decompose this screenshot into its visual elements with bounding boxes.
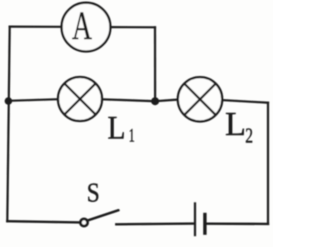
battery long plate [194, 202, 196, 236]
switch S [80, 210, 118, 226]
wire middle left segment [8, 99, 58, 101]
ammeter A [62, 3, 111, 52]
wire between junction and L2 [155, 100, 178, 102]
wire right vertical [267, 103, 269, 224]
battery short plate [203, 213, 206, 235]
wire bottom-left to switch [7, 221, 79, 222]
wire battery to right corner [206, 222, 268, 225]
wire switch to battery [116, 222, 194, 225]
svg-text:L: L [108, 111, 126, 147]
battery cell [195, 202, 205, 236]
wire left vertical [7, 27, 9, 222]
svg-text:1: 1 [129, 125, 135, 146]
node: left junction dot [5, 97, 13, 105]
svg-text:S: S [87, 177, 100, 207]
wire L2 to right corner [222, 100, 268, 103]
wire between L1 and junction [102, 99, 155, 101]
svg-text:A: A [72, 3, 92, 48]
node: middle junction dot [151, 97, 159, 105]
wire top-right segment [111, 26, 156, 28]
svg-text:2: 2 [245, 123, 253, 147]
wire vertical drop to middle junction [154, 27, 156, 101]
wire top-left segment [10, 26, 62, 28]
lamp L2 [178, 77, 222, 121]
lamp L1 [58, 77, 102, 121]
label L1 [108, 111, 135, 147]
svg-text:L: L [225, 106, 246, 143]
label L2 [225, 106, 253, 148]
